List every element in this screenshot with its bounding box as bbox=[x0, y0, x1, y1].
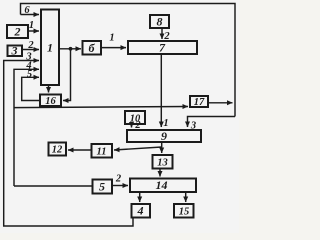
wire input 2 (block 3 to block 1) bbox=[22, 40, 39, 51]
block 2 bbox=[7, 25, 28, 39]
block 4 bbox=[132, 204, 151, 218]
block 14 bbox=[130, 178, 196, 192]
svg-text:4: 4 bbox=[137, 204, 144, 218]
wire: block 14 down to block 4 bbox=[139, 192, 141, 202]
wire: block 1 bottom into block 16 bbox=[48, 85, 50, 93]
block 8 bbox=[150, 15, 169, 29]
wire: block 17 output to node J2 on right vertical bbox=[209, 102, 233, 104]
wire: block 13 down into block 14 bbox=[159, 169, 161, 177]
wire: block 1 output to block b bbox=[59, 48, 81, 50]
block 15 bbox=[174, 204, 194, 218]
svg-text:17: 17 bbox=[194, 97, 205, 108]
svg-text:3: 3 bbox=[11, 44, 18, 58]
svg-text:2: 2 bbox=[14, 25, 21, 39]
wire: net 4 branch to block 17 input bbox=[14, 107, 188, 108]
svg-text:7: 7 bbox=[159, 41, 166, 55]
svg-text:б: б bbox=[89, 41, 96, 55]
svg-text:2: 2 bbox=[27, 40, 34, 51]
wire 1: block 7 down into block 9 bbox=[161, 54, 168, 129]
wire 1: block b output to block 7 input bbox=[101, 33, 126, 48]
svg-text:8: 8 bbox=[157, 15, 163, 29]
wire: block 11 to block 12 bbox=[68, 149, 92, 151]
block b (buffer) bbox=[83, 41, 102, 55]
svg-text:2: 2 bbox=[115, 174, 122, 185]
svg-text:16: 16 bbox=[45, 96, 56, 107]
block 5 bbox=[93, 180, 113, 194]
wire net 6: feedback loop top (from node J2 up and around into block 1 input 6) bbox=[21, 4, 236, 117]
block 13 bbox=[153, 155, 173, 169]
svg-text:5: 5 bbox=[99, 180, 105, 194]
svg-text:6: 6 bbox=[24, 5, 30, 16]
wire: block 9 output down to block 13 bbox=[161, 142, 163, 153]
wire input 1 (block 2 to block 1) bbox=[28, 20, 39, 31]
svg-text:1: 1 bbox=[47, 41, 53, 55]
svg-text:15: 15 bbox=[179, 207, 190, 218]
block 16 bbox=[40, 95, 61, 108]
block 12 bbox=[49, 143, 67, 156]
wire 2: block 8 down into block 7 bbox=[162, 28, 170, 42]
wire input 3 of block 9 (from right vertical down) bbox=[188, 117, 236, 132]
node J1: junction dot on block 1 output bbox=[69, 47, 73, 51]
wire 2: block 10 down into block 9 bbox=[132, 120, 142, 131]
svg-text:14: 14 bbox=[156, 178, 168, 192]
wire: net 4 branch to block 5 input bbox=[14, 185, 92, 187]
block 1 bbox=[41, 10, 59, 86]
svg-text:1: 1 bbox=[109, 33, 114, 44]
svg-text:12: 12 bbox=[52, 145, 63, 156]
block 9 bbox=[127, 129, 201, 143]
wire 2: block 5 to block 14 bbox=[112, 174, 128, 186]
svg-text:5: 5 bbox=[27, 69, 32, 80]
svg-text:1: 1 bbox=[163, 118, 168, 129]
wire: block 14 down to block 15 bbox=[185, 192, 187, 202]
svg-text:13: 13 bbox=[157, 158, 168, 169]
block 11 bbox=[92, 144, 113, 158]
wire net 3: feedback from block 4 bottom loop into block 1 input 3 bbox=[4, 52, 133, 227]
block 17 bbox=[190, 96, 208, 108]
wire: branch to block 11 bbox=[114, 147, 162, 150]
block 7 bbox=[128, 41, 197, 55]
wire: node J1 down into block 16 right side bbox=[63, 49, 71, 101]
wire input 5 (block 16 feedback to block 1) bbox=[22, 69, 40, 101]
block 3 bbox=[8, 44, 23, 58]
block 10 bbox=[125, 111, 145, 125]
svg-text:1: 1 bbox=[29, 20, 34, 31]
svg-text:9: 9 bbox=[161, 129, 167, 143]
wire net 4: left vertical feeding block 1 input 4, block 17 and block 5 bbox=[14, 61, 39, 187]
svg-text:11: 11 bbox=[97, 147, 107, 158]
